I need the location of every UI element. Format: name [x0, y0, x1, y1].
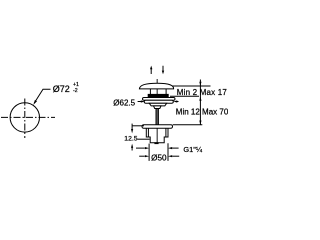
wire leader Ø62.5 right — [176, 101, 179, 103]
wire ref line cap — [173, 85, 211, 87]
node leader arrowhead Ø72 — [33, 100, 37, 105]
node stem rod left — [155, 109, 157, 125]
node body inner wall right — [165, 128, 167, 137]
node arrow up at deck line — [199, 97, 201, 101]
node stem nut — [154, 106, 162, 109]
node vertical centerline (left view) — [24, 99, 26, 139]
node seal washer (black) — [148, 94, 168, 97]
svg-text:G1"¼: G1"¼ — [183, 145, 202, 154]
wire 12.5 dim upper shaft — [131, 124, 133, 130]
wire witness line left — [148, 144, 150, 161]
node body outline — [146, 128, 168, 143]
svg-text:12.5: 12.5 — [124, 136, 137, 143]
node horizontal centerline (left view) — [1, 116, 55, 118]
node flange band 2 — [144, 100, 173, 103]
wire G dim left arrow — [136, 147, 145, 149]
node arrow down at body line — [199, 121, 201, 125]
wire witness line right — [167, 143, 169, 161]
wire 12.5 dim lower shaft — [131, 148, 133, 151]
wire Ø50 left arrow — [139, 155, 145, 157]
node circle plug top view — [10, 103, 39, 132]
wire up arrow — [150, 69, 152, 75]
svg-text:Ø62.5: Ø62.5 — [113, 98, 135, 107]
wire ref line deck top — [170, 95, 199, 97]
node cap dome — [139, 83, 173, 89]
wire vertical dimension line — [199, 80, 201, 125]
wire leader Ø62.5 left — [138, 101, 142, 103]
wire G dim right arrow — [172, 147, 178, 149]
node arrow down at cap line — [199, 82, 201, 86]
wire 12.5 tick top — [132, 125, 144, 127]
node flange band 3 — [149, 103, 167, 106]
wire down arrow — [162, 66, 164, 72]
node body inner wall left — [147, 128, 149, 137]
node neck right — [165, 89, 167, 95]
wire Ø50 right arrow — [172, 155, 179, 157]
node stem rod right — [157, 109, 159, 125]
svg-text:-2: -2 — [73, 88, 78, 94]
node lower flange — [142, 125, 173, 128]
node cap centerline — [156, 79, 158, 144]
node flange disc — [143, 98, 176, 101]
svg-text:Min 12 Max 70: Min 12 Max 70 — [176, 107, 228, 116]
svg-text:Ø72: Ø72 — [53, 84, 70, 94]
node neck left — [149, 89, 151, 95]
node bottom tab — [155, 142, 158, 145]
wire ref line body top — [173, 124, 203, 126]
wire leader Ø72 — [34, 89, 50, 103]
svg-text:Ø50: Ø50 — [151, 153, 167, 162]
wire 12.5 tick bottom — [137, 138, 149, 140]
svg-text:Min 2 Max 17: Min 2 Max 17 — [177, 88, 228, 97]
